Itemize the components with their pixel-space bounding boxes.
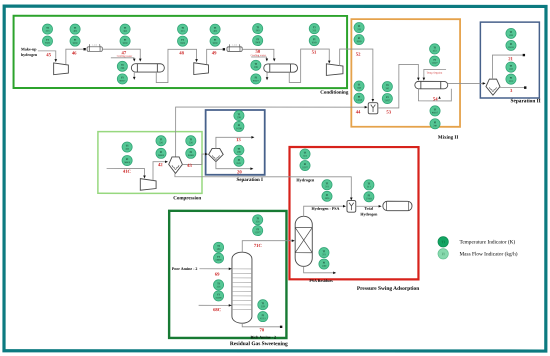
arrow stream 53 into heater E3 (417, 78, 420, 81)
svg-text:57603: 57603 (366, 197, 373, 200)
indicator FI Total Hydrogen (364, 192, 374, 202)
indicator TI PSA Residues (319, 248, 329, 258)
indicator TI Hydrogen stream (300, 149, 310, 159)
svg-text:42: 42 (158, 162, 163, 168)
wire stream 46a (66, 49, 83, 64)
svg-text:Mass Flow Indicator (kg/h): Mass Flow Indicator (kg/h) (459, 251, 517, 257)
indicator FI stream 53 (382, 93, 392, 103)
svg-text:FI: FI (124, 39, 126, 42)
svg-text:FI: FI (510, 43, 512, 46)
Conditioning section box (14, 16, 348, 88)
arrow stream 47 into cooler E1 (139, 59, 142, 62)
svg-text:FI: FI (358, 37, 360, 40)
svg-text:Hydrogen: Hydrogen (360, 212, 378, 217)
svg-text:69: 69 (215, 272, 220, 278)
svg-text:54: 54 (433, 96, 438, 102)
indicator FI E2 cooling water (251, 74, 261, 84)
indicator TI stream 48 (177, 24, 187, 34)
arrow endpoint PSA Residues (333, 272, 336, 275)
svg-text:52977: 52977 (302, 166, 309, 169)
indicator TI E1 cooling water (117, 61, 127, 71)
svg-text:45: 45 (46, 52, 51, 58)
mixer M2 (368, 103, 378, 114)
arrow into Total Hydrogen tank (379, 205, 382, 208)
indicator FI stream 46 (70, 36, 80, 46)
wire cooling water in E2 (251, 57, 266, 60)
arrow stream 41C into compressor K4 (143, 176, 146, 179)
svg-text:FI: FI (368, 194, 370, 197)
indicator TI stream 45 (42, 24, 52, 34)
pipe segment PIPE1 (87, 44, 102, 52)
indicator FI stream 44 (354, 93, 364, 103)
indicator FI stream 21 (506, 40, 516, 50)
svg-text:FI: FI (238, 124, 240, 127)
arrow endpoint stream 20 (250, 167, 253, 170)
Pressure Swing Adsorption section box (289, 147, 418, 279)
compressor K1 (54, 63, 69, 75)
wire stream 45 (38, 51, 56, 60)
wire stream 69 (199, 268, 230, 270)
svg-text:FI: FI (160, 151, 162, 154)
svg-text:Poor Amine - 2: Poor Amine - 2 (172, 266, 198, 271)
indicator TI stream 43 (186, 136, 196, 146)
tank Total Hydrogen (383, 201, 412, 210)
svg-text:21: 21 (508, 56, 513, 62)
svg-text:49: 49 (212, 50, 217, 56)
indicator FI stream 69 (213, 253, 223, 263)
svg-text:Temp Setpoint: Temp Setpoint (426, 72, 442, 75)
svg-text:Cooling water: Cooling water (251, 54, 266, 57)
wire stream 52 (340, 49, 373, 100)
svg-text:Pressure Swing Adsorption: Pressure Swing Adsorption (357, 286, 419, 292)
Separation I section box (206, 110, 265, 175)
arrow stream 48 into compressor K2 (195, 59, 198, 62)
Residual Gas Sweetening section box (169, 211, 286, 338)
arrow stream 42 into separator V1 (165, 160, 168, 163)
svg-text:71C: 71C (254, 243, 263, 249)
arrow stream 69 into column (229, 267, 232, 270)
Mixing II section box (351, 19, 460, 127)
indicator TI stream 54 (430, 106, 440, 116)
svg-text:52: 52 (356, 52, 361, 58)
indicator TI heater E3 (430, 44, 440, 54)
svg-text:Total: Total (364, 206, 374, 211)
indicator FI stream 49 (210, 36, 220, 46)
svg-text:96027: 96027 (119, 80, 126, 83)
indicator FI stream 41C (122, 155, 132, 165)
arrow cooling water out E2 (266, 77, 269, 80)
junction stream 49 (223, 48, 225, 50)
indicator TI E2 cooling water (251, 60, 261, 70)
heat exchanger E3 heater (415, 81, 448, 88)
indicator FI stream 3 (506, 74, 516, 84)
indicator FI stream 42 (156, 148, 166, 158)
svg-text:FI: FI (126, 158, 128, 161)
svg-text:FI: FI (190, 151, 192, 154)
wire stream Hydrogen - PSA (304, 206, 345, 216)
svg-text:44: 44 (356, 109, 361, 115)
junction stream 46 (83, 48, 85, 50)
wire cooling water out E2 (266, 72, 268, 78)
svg-text:Make-up: Make-up (21, 47, 37, 52)
legend TI circle (438, 237, 448, 247)
svg-text:56298: 56298 (216, 296, 223, 299)
compressor K3 (326, 64, 343, 76)
wire stream 48 (156, 49, 196, 82)
svg-text:48: 48 (179, 50, 184, 56)
svg-text:PSA Residues: PSA Residues (309, 278, 333, 283)
indicator TI stream 41C (122, 142, 132, 152)
endpoint stream 21 (523, 54, 525, 56)
arrow stream 44 into mixer M2 (365, 106, 368, 109)
svg-text:20413: 20413 (508, 46, 515, 49)
svg-text:Residual Gas Sweetening: Residual Gas Sweetening (230, 341, 288, 347)
heat exchanger E1 cooler (131, 64, 164, 72)
indicator FI stream 45 (42, 36, 52, 46)
svg-text:FI: FI (323, 262, 325, 265)
arrow stream 71C into PSA column (292, 239, 295, 242)
svg-text:Separation I: Separation I (236, 177, 263, 183)
indicator FI stream 43 (186, 148, 196, 158)
indicator FI stream 48 (177, 36, 187, 46)
svg-text:FI: FI (304, 163, 306, 166)
indicator TI stream 50 (253, 23, 263, 33)
svg-text:96027: 96027 (253, 79, 260, 82)
svg-text:FI: FI (238, 159, 240, 162)
svg-text:68C: 68C (213, 307, 222, 313)
wire energy Temp Setpoint (424, 69, 446, 78)
wire heater E3 outlet to Separation II (448, 82, 485, 84)
arrow stream 45 into compressor K1 (54, 59, 57, 62)
svg-text:FI: FI (214, 39, 216, 42)
wire stream 71C (242, 241, 293, 253)
indicator FI Hydrogen - PSA (322, 191, 332, 201)
indicator TI stream 49 (210, 24, 220, 34)
svg-text:63321: 63321 (260, 317, 267, 320)
svg-text:Rich Amine - 2: Rich Amine - 2 (251, 334, 276, 339)
wire stream 43 (182, 154, 206, 164)
svg-text:FI: FI (358, 96, 360, 99)
wire stream 47 (102, 49, 140, 60)
wire stream 13 (216, 137, 253, 148)
svg-text:96069: 96069 (188, 154, 195, 157)
wire stream 21 (492, 55, 522, 79)
indicator FI stream 51 (309, 36, 319, 46)
svg-text:FI: FI (256, 228, 258, 231)
endpoint stream 3 (524, 86, 526, 88)
arrow Hydrogen-PSA into mixer M1 (343, 205, 346, 208)
arrow Hydrogen into mixer M1 (350, 197, 353, 200)
svg-text:FI: FI (386, 96, 388, 99)
svg-text:1-0=0: 1-0=0 (92, 44, 97, 47)
svg-text:96027: 96027 (432, 111, 439, 114)
arrow stream 54 (438, 96, 440, 99)
svg-text:22027: 22027 (432, 62, 439, 65)
wire stream 54 loop (418, 89, 451, 101)
svg-text:FI: FI (46, 39, 48, 42)
svg-text:FI: FI (313, 38, 315, 41)
svg-text:FI: FI (217, 256, 219, 259)
absorber column RGS (232, 252, 252, 323)
svg-text:FI: FI (510, 77, 512, 80)
indicator FI stream 54 (430, 119, 440, 129)
svg-text:20: 20 (237, 169, 242, 175)
svg-text:FI: FI (121, 76, 123, 79)
Compression section box (98, 132, 202, 194)
svg-text:96069: 96069 (124, 161, 131, 164)
svg-text:22027: 22027 (384, 99, 391, 102)
svg-text:Conditioning: Conditioning (320, 90, 349, 96)
svg-text:FI: FI (433, 59, 435, 62)
arrow cooling water into E1 (133, 59, 136, 62)
indicator TI stream 71C (253, 215, 263, 225)
svg-text:46: 46 (72, 50, 77, 56)
indicator TI stream 20 (234, 145, 244, 155)
svg-text:FI: FI (434, 121, 436, 124)
indicator TI stream 69 (213, 242, 223, 252)
indicator TI stream 53 (382, 81, 392, 91)
indicator TI stream 47 (120, 24, 130, 34)
mixer M1 (347, 201, 356, 213)
indicator FI heater E3 (430, 56, 440, 66)
arrow cooling water into E2 (266, 58, 269, 61)
svg-text:Cooling water: Cooling water (117, 55, 132, 58)
compressor K4 (140, 179, 156, 191)
svg-text:Compression: Compression (173, 195, 201, 201)
indicator TI stream 44 (354, 81, 364, 91)
svg-text:96069: 96069 (158, 154, 165, 157)
svg-text:Temperature Indicator (K): Temperature Indicator (K) (459, 239, 515, 245)
indicator TI stream 70 (258, 300, 268, 310)
arrow stream 50 into cooler E2 (273, 58, 276, 61)
wire stream 50 (242, 49, 274, 60)
arrow energy into heater E3 (423, 78, 426, 81)
wire stream 44 (176, 107, 367, 157)
arrow cooling water out E1 (133, 77, 136, 80)
indicator FI stream 50 (253, 35, 263, 45)
indicator FI stream 13 (234, 121, 244, 131)
pipe segment PIPE2 (227, 44, 242, 52)
svg-text:43: 43 (187, 163, 192, 169)
svg-text:FI: FI (74, 39, 76, 42)
indicator TI Total Hydrogen (364, 180, 374, 190)
indicator FI E1 cooling water (117, 74, 127, 84)
wire cooling water out E1 (133, 72, 135, 77)
arrow stream 43 into separator V2 (205, 153, 208, 156)
separator V1 separator (169, 157, 183, 173)
wire stream 42 (153, 162, 167, 181)
compressor K2 (194, 63, 209, 75)
indicator TI stream 3 (506, 62, 516, 72)
svg-text:51: 51 (312, 50, 317, 56)
wire Total Hydrogen (356, 205, 381, 207)
indicator FI stream 52 inlet (354, 34, 364, 44)
indicator FI stream 71C (253, 225, 263, 235)
svg-text:41C: 41C (123, 169, 132, 175)
indicator FI PSA Residues (319, 259, 329, 269)
indicator TI stream 21 (506, 28, 516, 38)
arrow endpoint stream 13 (251, 136, 254, 139)
legend FI circle (438, 249, 448, 259)
heat exchanger E2 cooler (264, 64, 298, 72)
adsorption column PSA (295, 216, 312, 266)
wire stream 3 (500, 87, 524, 89)
indicator FI stream 68C (213, 291, 223, 301)
indicator TI stream 51 (309, 24, 319, 34)
wire cooling water in E1 (111, 58, 134, 60)
indicator FI stream 70 (258, 311, 268, 321)
indicator TI Hydrogen - PSA (322, 180, 332, 190)
endpoint stream 70 (280, 326, 282, 328)
arrow into separator V3 (483, 82, 486, 85)
wire stream Hydrogen (175, 173, 351, 198)
wire stream 68C (199, 304, 231, 306)
wire stream 51 (289, 49, 329, 82)
svg-text:Mixing II: Mixing II (438, 135, 458, 141)
svg-text:70: 70 (259, 327, 264, 333)
svg-text:13: 13 (236, 137, 241, 143)
svg-text:Separation II: Separation II (511, 98, 541, 104)
indicator TI stream 46 (70, 24, 80, 34)
indicator TI stream 13 (234, 110, 244, 120)
svg-text:hydrogen: hydrogen (21, 52, 38, 57)
svg-text:FI: FI (326, 194, 328, 197)
svg-text:FI: FI (256, 38, 258, 41)
wire stream 53 (378, 64, 419, 108)
separator V2 gas-liquid separator (209, 148, 224, 161)
arrow stream 52 into mixer M2 (372, 99, 375, 102)
svg-text:12658: 12658 (356, 99, 363, 102)
wire stream 41C (107, 169, 145, 177)
svg-text:1-0=0: 1-0=0 (232, 44, 237, 47)
wire PSA Residues (304, 266, 335, 273)
Separation II section box (480, 22, 539, 98)
indicator TI stream 52 inlet (354, 22, 364, 32)
indicator TI stream 68C (213, 280, 223, 290)
indicator FI stream 20 (234, 156, 244, 166)
svg-text:FI: FI (255, 76, 257, 79)
svg-text:60000: 60000 (216, 259, 223, 262)
svg-text:FI: FI (181, 39, 183, 42)
svg-text:53: 53 (386, 109, 391, 115)
svg-text:Hydrogen - PSA: Hydrogen - PSA (311, 206, 339, 211)
indicator TI stream 42 (156, 136, 166, 146)
indicator FI stream 47 (120, 36, 130, 46)
arrow stream 51 into compressor K3 (328, 61, 331, 64)
wire stream 20 (216, 162, 252, 169)
svg-text:52977: 52977 (255, 231, 262, 234)
svg-text:FI: FI (217, 293, 219, 296)
separator V3 gas-liquid separator (486, 79, 500, 95)
indicator FI Hydrogen stream (300, 160, 310, 170)
arrow stream 68C into column (229, 304, 232, 307)
wire stream 70 (242, 323, 280, 327)
svg-text:56298: 56298 (236, 127, 243, 130)
svg-text:Hydrogen: Hydrogen (296, 177, 315, 182)
wire stream 49a (207, 49, 223, 64)
svg-text:FI: FI (262, 314, 264, 317)
